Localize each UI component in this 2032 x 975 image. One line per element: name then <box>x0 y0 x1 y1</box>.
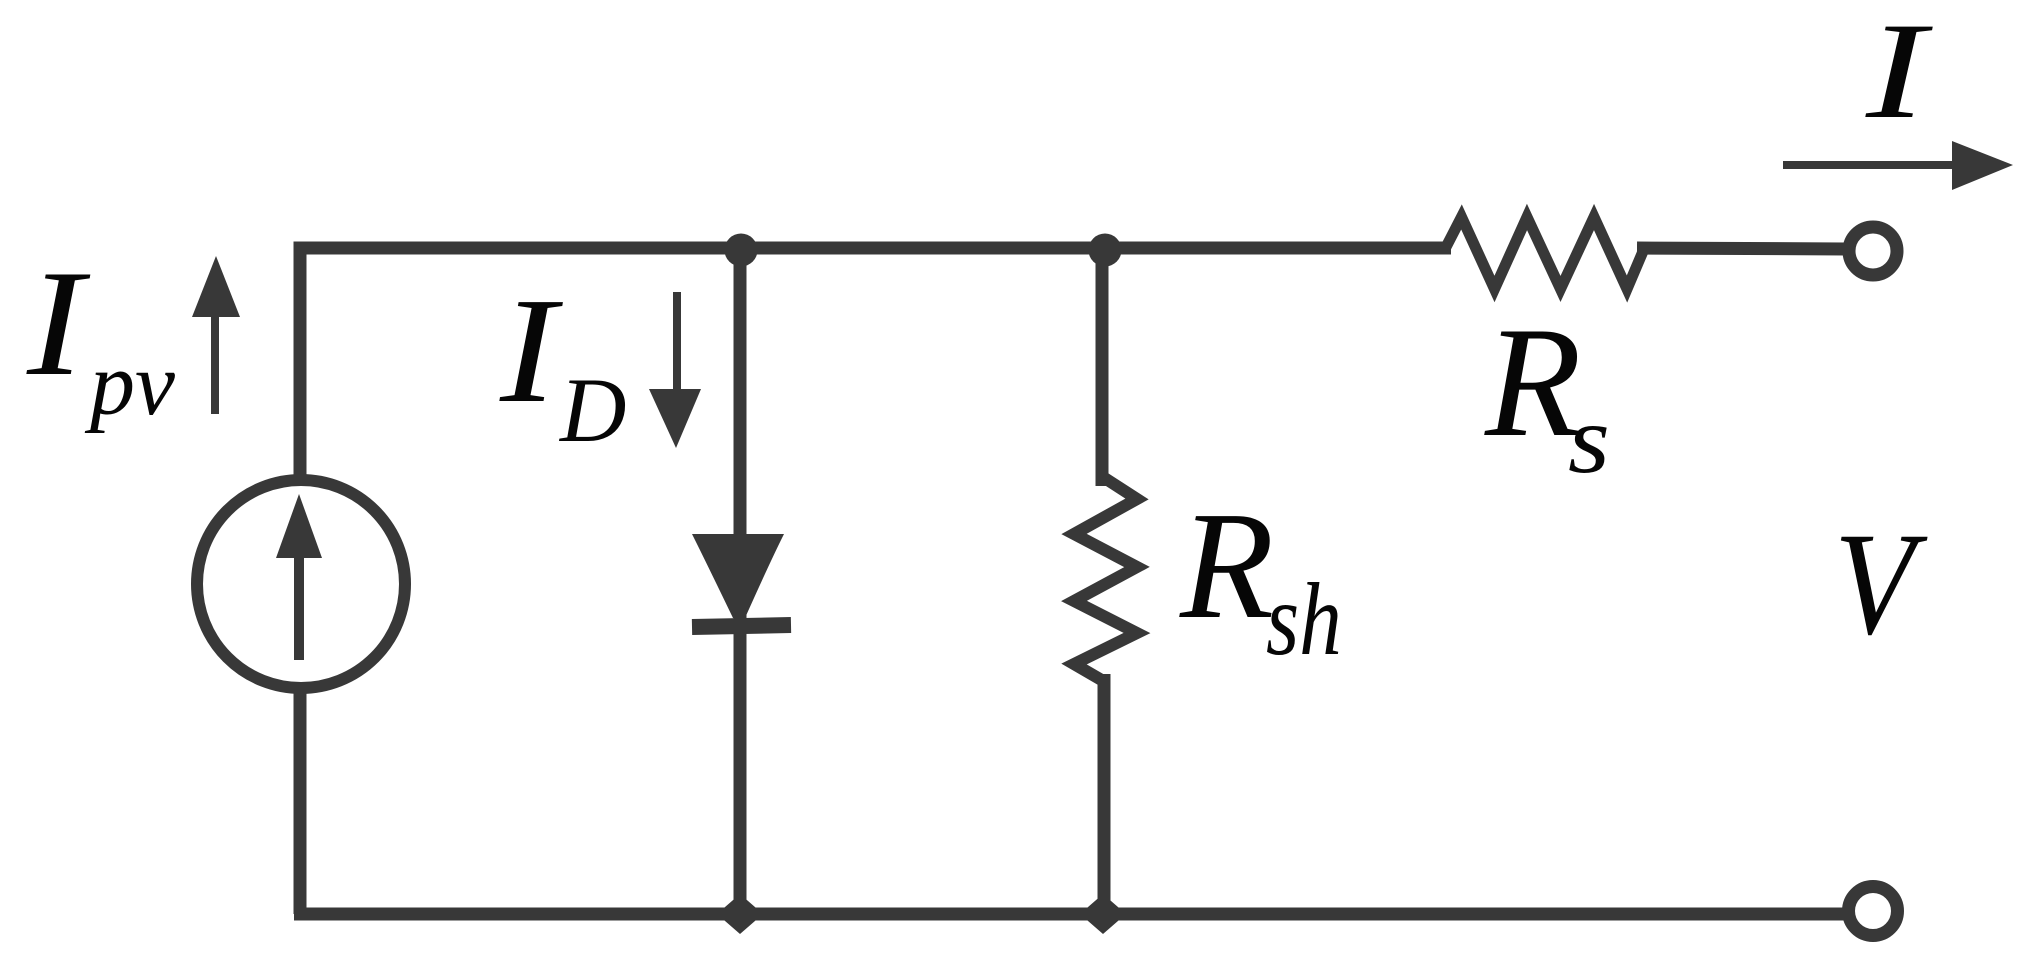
arrow I output current shaft <box>1783 161 1958 169</box>
wire left vertical below current source <box>294 693 307 914</box>
svg-text:pv: pv <box>84 335 175 434</box>
wire shunt branch vertical bottom <box>1098 674 1111 914</box>
current source U1 internal arrow shaft <box>294 548 304 660</box>
svg-text:D: D <box>558 359 626 461</box>
svg-text:I: I <box>26 238 91 407</box>
junction node bottom diode <box>717 894 763 934</box>
svg-text:V: V <box>1834 503 1928 666</box>
svg-text:sh: sh <box>1266 561 1342 677</box>
terminal positive output <box>1849 227 1897 275</box>
wire diode branch vertical <box>734 248 747 914</box>
current source U1 circle <box>197 480 405 688</box>
wire top-left loop: left vertical + top horizontal <box>300 248 1451 478</box>
arrow I output current head <box>1952 141 2013 190</box>
wire from Rs to output terminal <box>1637 248 1846 249</box>
svg-text:R: R <box>1179 481 1274 651</box>
wire bottom horizontal <box>294 908 1847 921</box>
resistor Rs zigzag <box>1445 217 1644 289</box>
junction node top diode <box>725 234 758 267</box>
junction node top shunt <box>1089 234 1122 267</box>
arrow Ipv direction shaft <box>211 305 219 414</box>
junction node bottom shunt <box>1080 894 1126 934</box>
svg-text:s: s <box>1568 385 1610 493</box>
arrow ID direction shaft <box>673 292 681 400</box>
diode D1 triangle <box>692 534 784 618</box>
svg-text:I: I <box>1865 0 1933 147</box>
arrow ID direction head <box>649 389 701 448</box>
diode D1 cathode bar <box>692 625 791 627</box>
current source U1 internal arrow head <box>276 494 322 558</box>
svg-text:I: I <box>499 266 563 434</box>
arrow Ipv direction head <box>192 256 240 317</box>
terminal negative output <box>1849 887 1898 936</box>
resistor Rsh zigzag <box>1074 477 1137 682</box>
svg-text:R: R <box>1484 295 1582 470</box>
wire shunt branch vertical top <box>1096 248 1109 486</box>
